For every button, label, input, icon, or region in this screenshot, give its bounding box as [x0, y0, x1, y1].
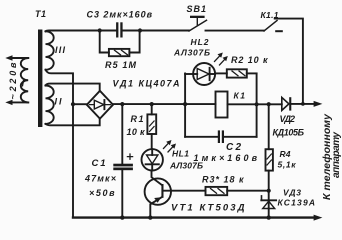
HL2 light arrows [215, 53, 228, 66]
wire R2 to right vertical [247, 72, 257, 74]
svg-text:НL1: НL1 [172, 149, 189, 159]
node rail C1 junction [120, 215, 124, 219]
svg-text:аппарату: аппарату [331, 132, 342, 178]
svg-text:С2: С2 [226, 142, 241, 153]
wire winding III bottom to common vertical [46, 70, 74, 218]
svg-text:R4: R4 [280, 149, 291, 159]
wire R5 branch right [129, 31, 139, 53]
wire R5 branch left [100, 31, 109, 53]
wire winding II top to bridge top [46, 84, 100, 91]
node top-left junction [98, 28, 102, 32]
svg-text:×50в: ×50в [89, 188, 115, 198]
wire K1.1 to right vertical down [275, 19, 303, 104]
wire main dc line [113, 103, 216, 105]
wire top line left [46, 30, 117, 33]
arrow output bottom [314, 215, 323, 221]
LED HL1 [142, 149, 163, 170]
svg-text:47мк×: 47мк× [84, 174, 117, 184]
svg-text:АЛ307Б: АЛ307Б [173, 48, 210, 58]
winding II [46, 85, 54, 123]
svg-text:VД2: VД2 [280, 114, 296, 124]
resistor R3 [206, 187, 228, 195]
winding I (primary) [21, 58, 28, 102]
arrow primary top [5, 55, 12, 60]
wire winding II bottom to bridge bottom [46, 119, 100, 126]
svg-text:I: I [22, 79, 25, 90]
svg-text:КС139А: КС139А [278, 198, 316, 208]
svg-text:~220в: ~220в [8, 62, 18, 100]
relay contact K1.1 [264, 21, 283, 33]
node rail VD3 junction [267, 215, 271, 219]
wire primary bottom lead [12, 101, 29, 103]
svg-text:5,1к: 5,1к [278, 160, 297, 170]
wire VT1 base lead [164, 190, 206, 192]
wire C1 bottom [121, 170, 123, 217]
wire bridge left vertex to common [73, 103, 87, 105]
arrow primary bottom [5, 100, 12, 105]
node common-bridge junction [71, 102, 75, 106]
pushbutton SB1 [189, 16, 207, 31]
capacitor C1 branch top wire [121, 104, 123, 164]
node top-right junction [138, 28, 142, 32]
svg-text:R5 1М: R5 1М [105, 60, 137, 70]
diode VD2 [282, 97, 292, 110]
wire HL2/C2 right vertical [256, 73, 258, 136]
resistor R4 [266, 104, 273, 191]
wire top line right of C3 [123, 30, 189, 32]
svg-text:АЛ307Б: АЛ307Б [169, 161, 203, 171]
svg-text:III: III [55, 45, 65, 55]
resistor R2 [227, 69, 247, 77]
node R1 tap [150, 102, 154, 106]
wire R3 to R4/VD3 node [227, 190, 269, 192]
svg-text:С1: С1 [92, 158, 106, 169]
svg-text:VД1 КЦ407А: VД1 КЦ407А [113, 79, 180, 89]
svg-text:SВ1: SВ1 [187, 4, 207, 14]
svg-text:II: II [55, 97, 62, 107]
svg-text:10 к: 10 к [127, 127, 145, 137]
resistor R5 [109, 49, 129, 56]
svg-text:С3 2мк×160в: С3 2мк×160в [87, 10, 153, 20]
svg-text:1мк×160в: 1мк×160в [194, 153, 258, 163]
zener diode VD3 [261, 191, 276, 218]
svg-text:R1: R1 [131, 114, 144, 124]
wire bottom rail [73, 216, 314, 218]
svg-text:VТ1 КТ503Д: VТ1 КТ503Д [171, 203, 245, 214]
transformer T1 core [38, 30, 42, 128]
wire R1 to HL1 [151, 134, 153, 149]
svg-text:R2 10 к: R2 10 к [231, 55, 268, 65]
C1 plus sign [127, 154, 132, 159]
diode bridge VD1 [87, 91, 113, 119]
HL1 light arrows [164, 140, 177, 152]
node R3/R4/VD3 junction [267, 189, 271, 193]
capacitor C2 [185, 130, 257, 143]
node HL2/C2 branch tap [183, 102, 187, 106]
wire HL2 to R2 [215, 72, 227, 74]
capacitor C1 [113, 164, 133, 171]
arrow output top [314, 101, 323, 107]
node rail VT1 emitter junction [148, 215, 152, 219]
LED HL2 [185, 63, 215, 85]
transistor VT1 [145, 171, 171, 218]
svg-text:К1: К1 [234, 91, 246, 101]
node HL2/C2 right tap [255, 102, 259, 106]
svg-text:НL2: НL2 [191, 37, 209, 47]
resistor R1 [147, 104, 156, 134]
svg-text:Т1: Т1 [35, 9, 46, 19]
winding III [46, 31, 54, 69]
svg-text:R3* 18 к: R3* 18 к [202, 175, 244, 185]
branch HL2 left vertical [184, 73, 186, 136]
node C1 tap [120, 102, 124, 106]
capacitor C3 [116, 22, 123, 37]
svg-text:КД105Б: КД105Б [273, 128, 305, 138]
node K1.1 line junction [301, 102, 305, 106]
wire VD2 to output arrow [291, 103, 314, 105]
relay coil K1 [216, 92, 228, 118]
node R4 tap [267, 102, 271, 106]
wire dc line right of coil [228, 103, 282, 105]
wire primary top lead [12, 57, 29, 59]
svg-text:VД3: VД3 [283, 187, 301, 197]
wire SB1 to K1.1 [206, 30, 265, 32]
